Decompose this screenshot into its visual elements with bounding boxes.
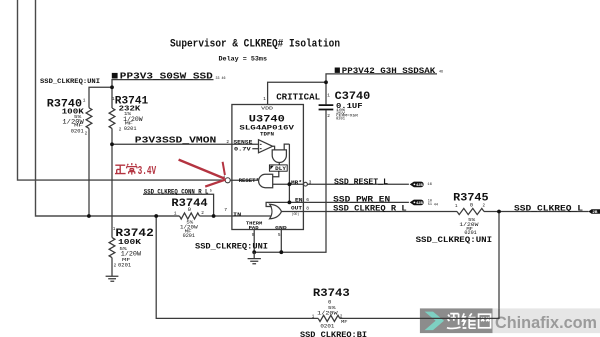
wire pin SENSE inside [232, 143, 259, 145]
svg-text:42B: 42B [416, 202, 423, 206]
svg-text:5: 5 [278, 233, 281, 238]
svg-text:100K: 100K [118, 239, 142, 247]
junction at 112,87.3 [110, 85, 114, 89]
svg-text:6: 6 [306, 197, 309, 203]
svg-text:2: 2 [201, 211, 204, 216]
wire bottom rail over watermark [420, 317, 499, 319]
wire R3740 bottom to CLKREQ rail [88, 128, 90, 216]
svg-text:8: 8 [306, 205, 309, 211]
svg-text:1: 1 [174, 212, 177, 217]
svg-text:TDFN: TDFN [260, 131, 274, 137]
wire net SSD_CLKREQ vertical from top to R3744 [36, 0, 180, 216]
svg-text:0201: 0201 [183, 233, 195, 239]
svg-text:PP3V42_G3H_SSDSAK: PP3V42_G3H_SSDSAK [342, 66, 436, 76]
wire DLY to reset gate [273, 171, 279, 177]
wire bottom rail left segment [156, 216, 318, 318]
svg-text:16: 16 [427, 183, 432, 187]
wire VMON down to R3742 top [111, 144, 113, 237]
junction at 289.4,202.4 [288, 201, 292, 205]
wire pin THERM PAD to gnd rail [253, 230, 255, 253]
svg-text:VDD: VDD [261, 107, 273, 112]
wire OUT / SSD_CLKREQ_R_L to R3745 [281, 211, 457, 213]
svg-text:GND: GND [275, 225, 287, 231]
wire gnd rail [254, 251, 281, 253]
svg-text:2: 2 [114, 264, 117, 269]
svg-text:SSD_CLKREQ:UNI: SSD_CLKREQ:UNI [195, 243, 268, 252]
svg-text:SSD_CLKREQ:UNI: SSD_CLKREQ:UNI [40, 78, 100, 86]
red annotation glyph CHANG [127, 163, 137, 175]
svg-text:2: 2 [119, 128, 122, 133]
svg-text:IN: IN [233, 212, 241, 218]
svg-text:SSD_CLKREQ_R_L: SSD_CLKREQ_R_L [333, 203, 407, 213]
svg-text:RESET*: RESET* [239, 178, 259, 184]
svg-text:SSD_CLKREQ:UNI: SSD_CLKREQ:UNI [416, 236, 493, 245]
svg-text:MF: MF [341, 320, 348, 325]
wire C3740 bottom to gnd rail [281, 110, 326, 252]
wire MR* to connector [308, 183, 409, 185]
capacitor C3740 plates [319, 105, 334, 109]
junction at 213.6,216 [212, 214, 216, 218]
pin MR* bubble [304, 182, 308, 186]
comparator inside U3740 [259, 140, 273, 153]
node PP3V42_G3H_SSDSAK [335, 68, 340, 73]
svg-text:2: 2 [85, 132, 88, 137]
junction at 156.2,216 [154, 214, 158, 218]
watermark glyph WEI [463, 313, 476, 328]
wire pin IN inside [232, 215, 271, 217]
svg-text:1: 1 [263, 97, 266, 102]
svg-text:1: 1 [327, 94, 330, 99]
svg-text:2B: 2B [592, 210, 597, 214]
junction at 88.9,216 [87, 214, 91, 218]
wire internal MR/EN vertical [288, 144, 290, 202]
svg-text:9: 9 [252, 233, 255, 238]
svg-text:5: 5 [210, 190, 212, 194]
watermark light box [493, 308, 600, 333]
svg-text:PAD: PAD [249, 226, 259, 231]
wire R3742 bottom to ground [111, 258, 113, 277]
wire 0.7V reference stub [252, 148, 258, 150]
svg-text:Supervisor & CLKREQ# Isolation: Supervisor & CLKREQ# Isolation [170, 38, 340, 50]
svg-text:0201: 0201 [124, 126, 137, 132]
wire bottom rail right segment [340, 317, 499, 319]
svg-text:SSD_RESET_L: SSD_RESET_L [334, 177, 388, 187]
wire R3745 to SSD_CLKREQ_L connector [484, 211, 589, 213]
svg-text:Chinafix.com: Chinafix.com [495, 313, 597, 332]
wire comparator out to AND gate [273, 146, 275, 150]
watermark glyph WANG [479, 314, 491, 328]
svg-text:42B: 42B [416, 184, 423, 188]
svg-text:Delay = 53ms: Delay = 53ms [219, 56, 268, 63]
resistor R3741 [109, 108, 115, 128]
wire vertical over watermark [498, 308, 500, 319]
op-amp U3740 body [232, 105, 304, 230]
connector flag SSD_RESET_L [410, 182, 424, 188]
svg-text:CRITICAL: CRITICAL [276, 91, 320, 102]
svg-text:33 46: 33 46 [216, 77, 226, 81]
wire R3744 pin2 to IC pin IN [200, 215, 232, 217]
pin RESET* bubble [225, 178, 230, 183]
resistor R3740 [86, 108, 92, 129]
node PP3V3_S0SW_SSD [112, 73, 118, 79]
wire PP3V42 to pin VDD [268, 82, 326, 104]
watermark dark box [420, 308, 493, 333]
resistor R3745 [457, 208, 484, 214]
svg-text:MR*: MR* [291, 180, 302, 186]
wire feedback into AND gate [284, 144, 289, 150]
svg-text:1/20W: 1/20W [317, 309, 338, 316]
node PP3V3_S0SW_SSD label stub [112, 80, 214, 88]
ground (R3742) [106, 276, 119, 281]
svg-text:0201: 0201 [320, 323, 334, 329]
svg-text:3: 3 [309, 179, 312, 185]
svg-text:SSD CLKREQ:BI: SSD CLKREQ:BI [300, 332, 367, 337]
junction at 499,211.5 [497, 210, 501, 214]
connector flag SSD_CLKREQ_L [588, 209, 600, 214]
resistor R3744 [180, 213, 200, 219]
svg-text:51: 51 [428, 202, 432, 206]
svg-text:SENSE: SENSE [233, 140, 252, 146]
watermark chevron logo [425, 312, 444, 331]
junction at 112,144.3 [110, 142, 114, 146]
svg-text:SLG4AP016V: SLG4AP016V [239, 124, 294, 131]
wire PP3V3 to R3741 top [111, 87, 113, 108]
svg-text:0201: 0201 [336, 117, 345, 121]
svg-text:R3743: R3743 [313, 288, 350, 300]
wire R3741 bottom to VMON node [111, 128, 113, 144]
wire RESET* pin into gate [230, 179, 258, 181]
svg-text:EN: EN [295, 198, 303, 204]
svg-text:2: 2 [226, 140, 229, 145]
svg-text:7: 7 [224, 207, 227, 213]
ground (U3740 / C3740) [248, 252, 261, 264]
svg-text:46: 46 [439, 71, 443, 75]
junction at 281.3,252.2 [279, 250, 283, 254]
svg-text:(OD): (OD) [292, 212, 300, 217]
reset AND gate (mirrored) inside U3740 [259, 174, 273, 187]
node PP3V42_G3H_SSDSAK label stub [326, 74, 437, 105]
svg-text:3.4V: 3.4V [138, 164, 157, 178]
junction at 326,82.3 [324, 80, 328, 84]
svg-text:44: 44 [434, 202, 438, 206]
svg-text:1/20W: 1/20W [121, 251, 142, 258]
connector flag SSD_PWR_EN [410, 200, 424, 206]
AND gate (delay input) inside U3740 [272, 150, 286, 163]
resistor R3742 [109, 238, 115, 258]
wire pin GND to gnd rail [280, 230, 282, 253]
svg-text:OUT: OUT [291, 206, 302, 212]
svg-text:0.7V: 0.7V [234, 147, 252, 153]
red annotation glyph ZHENG [115, 165, 126, 173]
svg-text:0201: 0201 [118, 262, 131, 268]
watermark glyph XUN [447, 314, 461, 329]
resistor R3743 [318, 315, 340, 321]
svg-text:SSD_CLKREQ_CONN_R_L: SSD_CLKREQ_CONN_R_L [144, 188, 209, 195]
svg-text:2: 2 [327, 114, 330, 119]
svg-text:DLY: DLY [275, 166, 287, 172]
junction at 254.2,252.2 [252, 250, 256, 254]
delay block DLY [269, 165, 287, 171]
wire R3745 node down to bottom rail [498, 212, 500, 319]
wire PP3V3 to R3740 top [89, 87, 112, 108]
junction at 289.4,184.2 [288, 182, 292, 186]
red arrow to RESET* [179, 160, 225, 179]
wire EN to connector and inside to OR gate [266, 202, 409, 206]
svg-text:1: 1 [83, 99, 86, 104]
OR gate inside U3740 [270, 204, 282, 219]
wire reset gate output to MR* [273, 183, 304, 185]
svg-text:0201: 0201 [71, 129, 84, 135]
svg-text:PP3V3_S0SW_SSD: PP3V3_S0SW_SSD [120, 71, 214, 82]
svg-text:P3V3SSD_VMON: P3V3SSD_VMON [135, 136, 217, 146]
node SSD_CLKREQ_CONN_R_L label stub [143, 194, 214, 216]
svg-text:C3740: C3740 [335, 91, 371, 103]
wire net SSD_RESET vertical from top to RESET* pin [18, 0, 226, 180]
wire AND to DLY [278, 162, 280, 165]
svg-text:SSD_CLKREQ_L: SSD_CLKREQ_L [514, 203, 583, 213]
wire net P3V3SSD_VMON to pin SENSE [112, 143, 232, 145]
